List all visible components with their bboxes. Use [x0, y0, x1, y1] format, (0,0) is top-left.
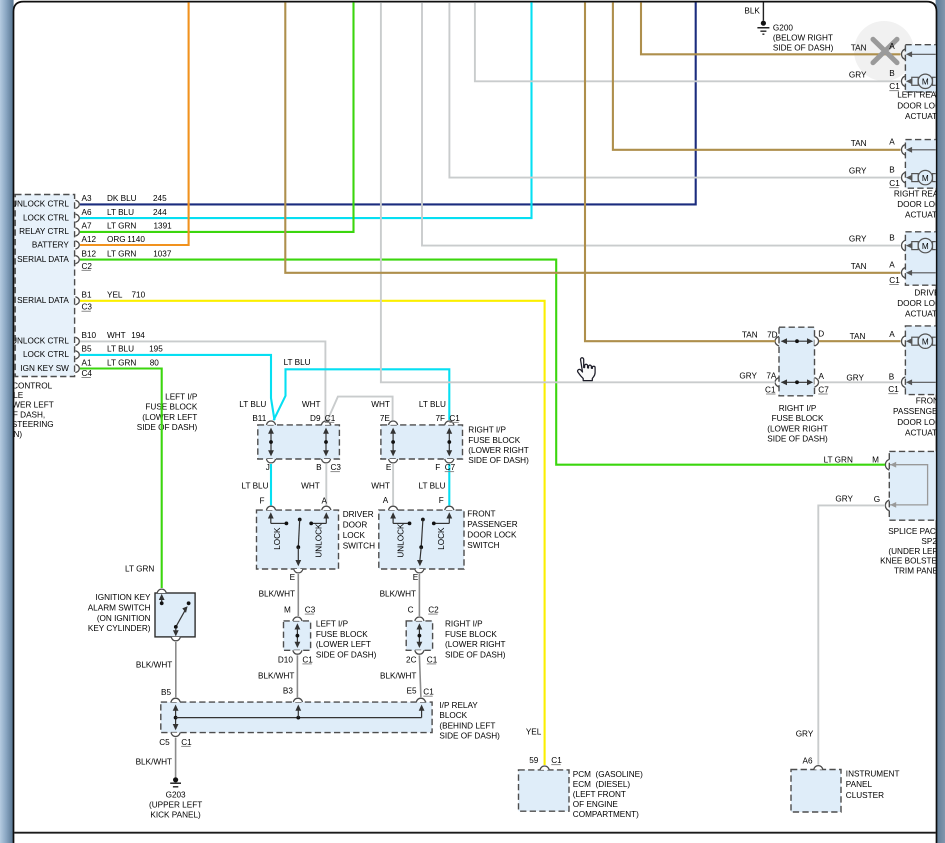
- svg-text:C1: C1: [325, 414, 336, 423]
- svg-text:BLK/WHT: BLK/WHT: [136, 757, 172, 766]
- svg-text:LT BLU: LT BLU: [242, 482, 269, 491]
- svg-text:C2: C2: [82, 262, 93, 271]
- svg-text:SERIAL DATA: SERIAL DATA: [17, 296, 69, 305]
- svg-text:LT BLU: LT BLU: [107, 345, 134, 354]
- svg-text:KNEE BOLSTER: KNEE BOLSTER: [880, 557, 943, 566]
- svg-text:BLK: BLK: [744, 7, 760, 16]
- svg-text:BLK/WHT: BLK/WHT: [380, 589, 416, 598]
- svg-text:7E: 7E: [380, 414, 391, 423]
- svg-text:LOCK: LOCK: [437, 527, 446, 550]
- svg-text:SIDE OF DASH): SIDE OF DASH): [439, 732, 500, 741]
- svg-text:DK BLU: DK BLU: [107, 194, 137, 203]
- svg-text:M: M: [284, 606, 291, 615]
- svg-text:LT BLU: LT BLU: [239, 400, 266, 409]
- svg-text:BLK/WHT: BLK/WHT: [136, 660, 172, 669]
- svg-text:(LOWER RIGHT: (LOWER RIGHT: [468, 446, 529, 455]
- svg-text:COMPARTMENT): COMPARTMENT): [573, 810, 639, 819]
- svg-text:B5: B5: [161, 688, 171, 697]
- svg-text:FUSE BLOCK: FUSE BLOCK: [145, 403, 197, 412]
- svg-text:FUSE BLOCK: FUSE BLOCK: [445, 630, 497, 639]
- svg-text:LE: LE: [13, 391, 24, 400]
- svg-text:2C: 2C: [406, 655, 417, 664]
- svg-text:GRY: GRY: [849, 235, 867, 244]
- svg-text:244: 244: [153, 208, 167, 217]
- svg-text:A: A: [889, 330, 895, 339]
- svg-text:7F: 7F: [435, 414, 445, 423]
- svg-text:RIGHT I/P: RIGHT I/P: [779, 404, 817, 413]
- svg-text:BLK/WHT: BLK/WHT: [259, 589, 295, 598]
- svg-text:E: E: [290, 573, 296, 582]
- svg-text:C3: C3: [331, 463, 342, 472]
- svg-text:A6: A6: [82, 208, 92, 217]
- svg-text:M: M: [872, 456, 879, 465]
- svg-text:SIDE OF DASH): SIDE OF DASH): [316, 650, 377, 659]
- svg-text:1391: 1391: [154, 222, 173, 231]
- svg-text:A7: A7: [82, 222, 92, 231]
- svg-text:F DASH,: F DASH,: [13, 410, 45, 419]
- svg-text:KEY CYLINDER): KEY CYLINDER): [88, 624, 151, 633]
- svg-text:B1: B1: [82, 291, 92, 300]
- svg-text:A6: A6: [802, 756, 812, 765]
- svg-text:TAN: TAN: [851, 262, 867, 271]
- svg-text:1140: 1140: [127, 235, 145, 244]
- svg-text:ALARM SWITCH: ALARM SWITCH: [88, 604, 151, 613]
- svg-text:E: E: [413, 573, 419, 582]
- svg-text:C1: C1: [427, 655, 438, 664]
- svg-text:TAN: TAN: [742, 331, 758, 340]
- svg-text:A: A: [321, 496, 327, 505]
- svg-text:M: M: [922, 242, 929, 251]
- svg-text:WER LEFT: WER LEFT: [12, 401, 53, 410]
- svg-text:PCM (GASOLINE): PCM (GASOLINE): [573, 770, 643, 779]
- svg-text:LOCK CTRL: LOCK CTRL: [23, 350, 69, 359]
- svg-text:DRIVER: DRIVER: [343, 510, 374, 519]
- svg-text:SERIAL DATA: SERIAL DATA: [17, 255, 69, 264]
- svg-text:LOCK CTRL: LOCK CTRL: [23, 213, 69, 222]
- svg-text:PASSENGER: PASSENGER: [467, 520, 517, 529]
- svg-text:BLK/WHT: BLK/WHT: [258, 671, 294, 680]
- svg-text:C3: C3: [305, 606, 316, 615]
- svg-text:C1: C1: [889, 276, 900, 285]
- svg-text:LT GRN: LT GRN: [107, 222, 136, 231]
- svg-text:DOOR: DOOR: [343, 520, 368, 529]
- svg-text:KICK PANEL): KICK PANEL): [150, 811, 201, 820]
- svg-text:A: A: [889, 42, 895, 51]
- svg-text:UNLOCK CTRL: UNLOCK CTRL: [11, 200, 69, 209]
- svg-text:A3: A3: [82, 194, 92, 203]
- svg-text:WHT: WHT: [107, 331, 126, 340]
- svg-text:DOOR LOCK: DOOR LOCK: [467, 530, 517, 539]
- svg-text:SIDE OF DASH): SIDE OF DASH): [137, 423, 198, 432]
- svg-text:GRY: GRY: [849, 70, 867, 79]
- svg-text:IGNITION KEY: IGNITION KEY: [95, 593, 151, 602]
- svg-text:(LOWER LEFT: (LOWER LEFT: [316, 640, 371, 649]
- svg-text:(LOWER RIGHT: (LOWER RIGHT: [767, 424, 828, 433]
- svg-text:TAN: TAN: [850, 332, 866, 341]
- svg-text:TAN: TAN: [851, 139, 867, 148]
- svg-text:B5: B5: [82, 345, 92, 354]
- svg-text:LEFT I/P: LEFT I/P: [316, 620, 349, 629]
- svg-text:YEL: YEL: [526, 727, 542, 736]
- svg-text:GRY: GRY: [846, 373, 864, 382]
- svg-text:C1: C1: [423, 688, 434, 697]
- svg-text:C1: C1: [765, 385, 776, 394]
- svg-text:IGN KEY SW: IGN KEY SW: [20, 364, 69, 373]
- svg-text:B: B: [316, 463, 322, 472]
- svg-text:7A: 7A: [766, 372, 777, 381]
- svg-text:ECM (DIESEL): ECM (DIESEL): [573, 780, 631, 789]
- svg-text:SIDE OF DASH): SIDE OF DASH): [767, 435, 828, 444]
- svg-text:59: 59: [529, 756, 539, 765]
- svg-text:(UPPER LEFT: (UPPER LEFT: [149, 801, 202, 810]
- svg-text:LOCK: LOCK: [273, 527, 282, 550]
- svg-text:B11: B11: [252, 414, 266, 423]
- svg-text:M: M: [922, 174, 929, 183]
- svg-text:A: A: [383, 496, 389, 505]
- svg-text:245: 245: [153, 194, 167, 203]
- svg-text:A: A: [819, 372, 825, 381]
- svg-text:J: J: [266, 463, 270, 472]
- svg-text:C1: C1: [302, 655, 313, 664]
- svg-text:I/P RELAY: I/P RELAY: [439, 701, 478, 710]
- svg-text:FUSE BLOCK: FUSE BLOCK: [468, 436, 520, 445]
- svg-text:B10: B10: [82, 331, 97, 340]
- svg-text:C4: C4: [82, 369, 93, 378]
- svg-text:SWITCH: SWITCH: [343, 541, 375, 550]
- svg-text:C1: C1: [889, 82, 900, 91]
- svg-text:WHT: WHT: [301, 482, 320, 491]
- svg-text:GRY: GRY: [835, 495, 853, 504]
- svg-text:ORG: ORG: [107, 235, 126, 244]
- svg-text:LT GRN: LT GRN: [107, 358, 136, 367]
- svg-text:FUSE BLOCK: FUSE BLOCK: [772, 414, 824, 423]
- svg-text:G: G: [874, 495, 880, 504]
- svg-text:C1: C1: [551, 756, 562, 765]
- svg-text:YEL: YEL: [107, 291, 123, 300]
- svg-text:SIDE OF DASH): SIDE OF DASH): [773, 43, 834, 52]
- svg-text:PANEL: PANEL: [846, 780, 873, 789]
- svg-text:WHT: WHT: [371, 400, 390, 409]
- svg-text:B: B: [889, 69, 895, 78]
- svg-text:SWITCH: SWITCH: [467, 541, 499, 550]
- svg-text:(BELOW RIGHT: (BELOW RIGHT: [773, 34, 833, 43]
- svg-text:F: F: [435, 463, 440, 472]
- svg-text:FRONT: FRONT: [467, 509, 495, 518]
- svg-text:LT BLU: LT BLU: [419, 400, 446, 409]
- svg-text:FUSE BLOCK: FUSE BLOCK: [316, 630, 368, 639]
- svg-text:C5: C5: [159, 738, 170, 747]
- svg-text:A: A: [889, 261, 895, 270]
- svg-text:C1: C1: [449, 414, 460, 423]
- svg-text:B: B: [889, 372, 895, 381]
- svg-text:SPLICE PACK: SPLICE PACK: [888, 527, 942, 536]
- svg-text:1037: 1037: [153, 249, 172, 258]
- svg-text:SIDE OF DASH): SIDE OF DASH): [468, 456, 529, 465]
- svg-text:(LOWER LEFT: (LOWER LEFT: [142, 413, 197, 422]
- svg-text:80: 80: [150, 358, 160, 367]
- svg-text:UNLOCK: UNLOCK: [314, 523, 323, 558]
- svg-text:CONTROL: CONTROL: [12, 381, 52, 390]
- svg-text:LT BLU: LT BLU: [419, 481, 446, 490]
- svg-text:RELAY CTRL: RELAY CTRL: [19, 227, 69, 236]
- svg-text:LOCK: LOCK: [343, 531, 366, 540]
- svg-text:B: B: [889, 234, 895, 243]
- svg-text:C7: C7: [445, 463, 456, 472]
- svg-text:UNLOCK CTRL: UNLOCK CTRL: [11, 337, 69, 346]
- svg-text:BATTERY: BATTERY: [32, 240, 70, 249]
- svg-text:WHT: WHT: [302, 400, 321, 409]
- svg-text:C2: C2: [428, 606, 439, 615]
- svg-text:(UNDER LEFT: (UNDER LEFT: [888, 547, 942, 556]
- svg-text:INSTRUMENT: INSTRUMENT: [846, 769, 900, 778]
- svg-text:M: M: [922, 78, 929, 87]
- svg-text:OF ENGINE: OF ENGINE: [573, 800, 619, 809]
- svg-text:A12: A12: [82, 235, 97, 244]
- svg-text:C3: C3: [82, 303, 93, 312]
- svg-text:BLOCK: BLOCK: [439, 711, 467, 720]
- svg-text:D: D: [818, 329, 824, 338]
- svg-text:(LOWER RIGHT: (LOWER RIGHT: [445, 640, 506, 649]
- svg-text:F: F: [439, 496, 444, 505]
- svg-text:710: 710: [132, 291, 146, 300]
- svg-text:LT BLU: LT BLU: [284, 358, 311, 367]
- svg-text:B: B: [889, 166, 895, 175]
- svg-text:B3: B3: [283, 686, 293, 695]
- svg-text:D9: D9: [310, 414, 321, 423]
- svg-text:195: 195: [149, 345, 163, 354]
- svg-text:LEFT REAR: LEFT REAR: [897, 91, 942, 100]
- svg-text:GRY: GRY: [849, 167, 867, 176]
- svg-text:E5: E5: [406, 686, 416, 695]
- svg-text:M: M: [922, 337, 929, 346]
- svg-text:LT GRN: LT GRN: [824, 455, 853, 464]
- svg-text:GRY: GRY: [739, 372, 757, 381]
- svg-text:BLK/WHT: BLK/WHT: [380, 671, 416, 680]
- svg-text:GRY: GRY: [796, 729, 814, 738]
- svg-text:C1: C1: [181, 738, 192, 747]
- svg-text:CLUSTER: CLUSTER: [846, 791, 884, 800]
- svg-text:A: A: [889, 138, 895, 147]
- svg-text:(BEHIND LEFT: (BEHIND LEFT: [439, 721, 495, 730]
- svg-text:G200: G200: [773, 24, 793, 33]
- svg-text:LT BLU: LT BLU: [107, 208, 134, 217]
- svg-text:C: C: [408, 606, 414, 615]
- svg-text:WHT: WHT: [371, 481, 390, 490]
- svg-text:STEERING: STEERING: [12, 420, 54, 429]
- svg-text:(LEFT FRONT: (LEFT FRONT: [573, 790, 626, 799]
- svg-text:RIGHT I/P: RIGHT I/P: [468, 426, 506, 435]
- svg-text:G203: G203: [166, 790, 186, 799]
- svg-text:A1: A1: [82, 358, 92, 367]
- svg-text:F: F: [259, 496, 264, 505]
- svg-text:RIGHT I/P: RIGHT I/P: [445, 620, 483, 629]
- svg-text:C1: C1: [888, 385, 899, 394]
- svg-text:C1: C1: [889, 179, 900, 188]
- svg-text:UNLOCK: UNLOCK: [396, 523, 405, 558]
- svg-text:LEFT I/P: LEFT I/P: [165, 392, 198, 401]
- svg-text:E: E: [386, 463, 392, 472]
- svg-text:SIDE OF DASH): SIDE OF DASH): [445, 650, 506, 659]
- svg-text:LT GRN: LT GRN: [107, 249, 136, 258]
- svg-text:TAN: TAN: [851, 43, 867, 52]
- svg-text:B12: B12: [82, 249, 97, 258]
- svg-text:7D: 7D: [767, 331, 778, 340]
- svg-text:(ON IGNITION: (ON IGNITION: [97, 614, 151, 623]
- svg-text:LT GRN: LT GRN: [125, 564, 154, 573]
- svg-text:194: 194: [131, 331, 145, 340]
- svg-text:D10: D10: [278, 655, 293, 664]
- svg-text:C7: C7: [818, 385, 829, 394]
